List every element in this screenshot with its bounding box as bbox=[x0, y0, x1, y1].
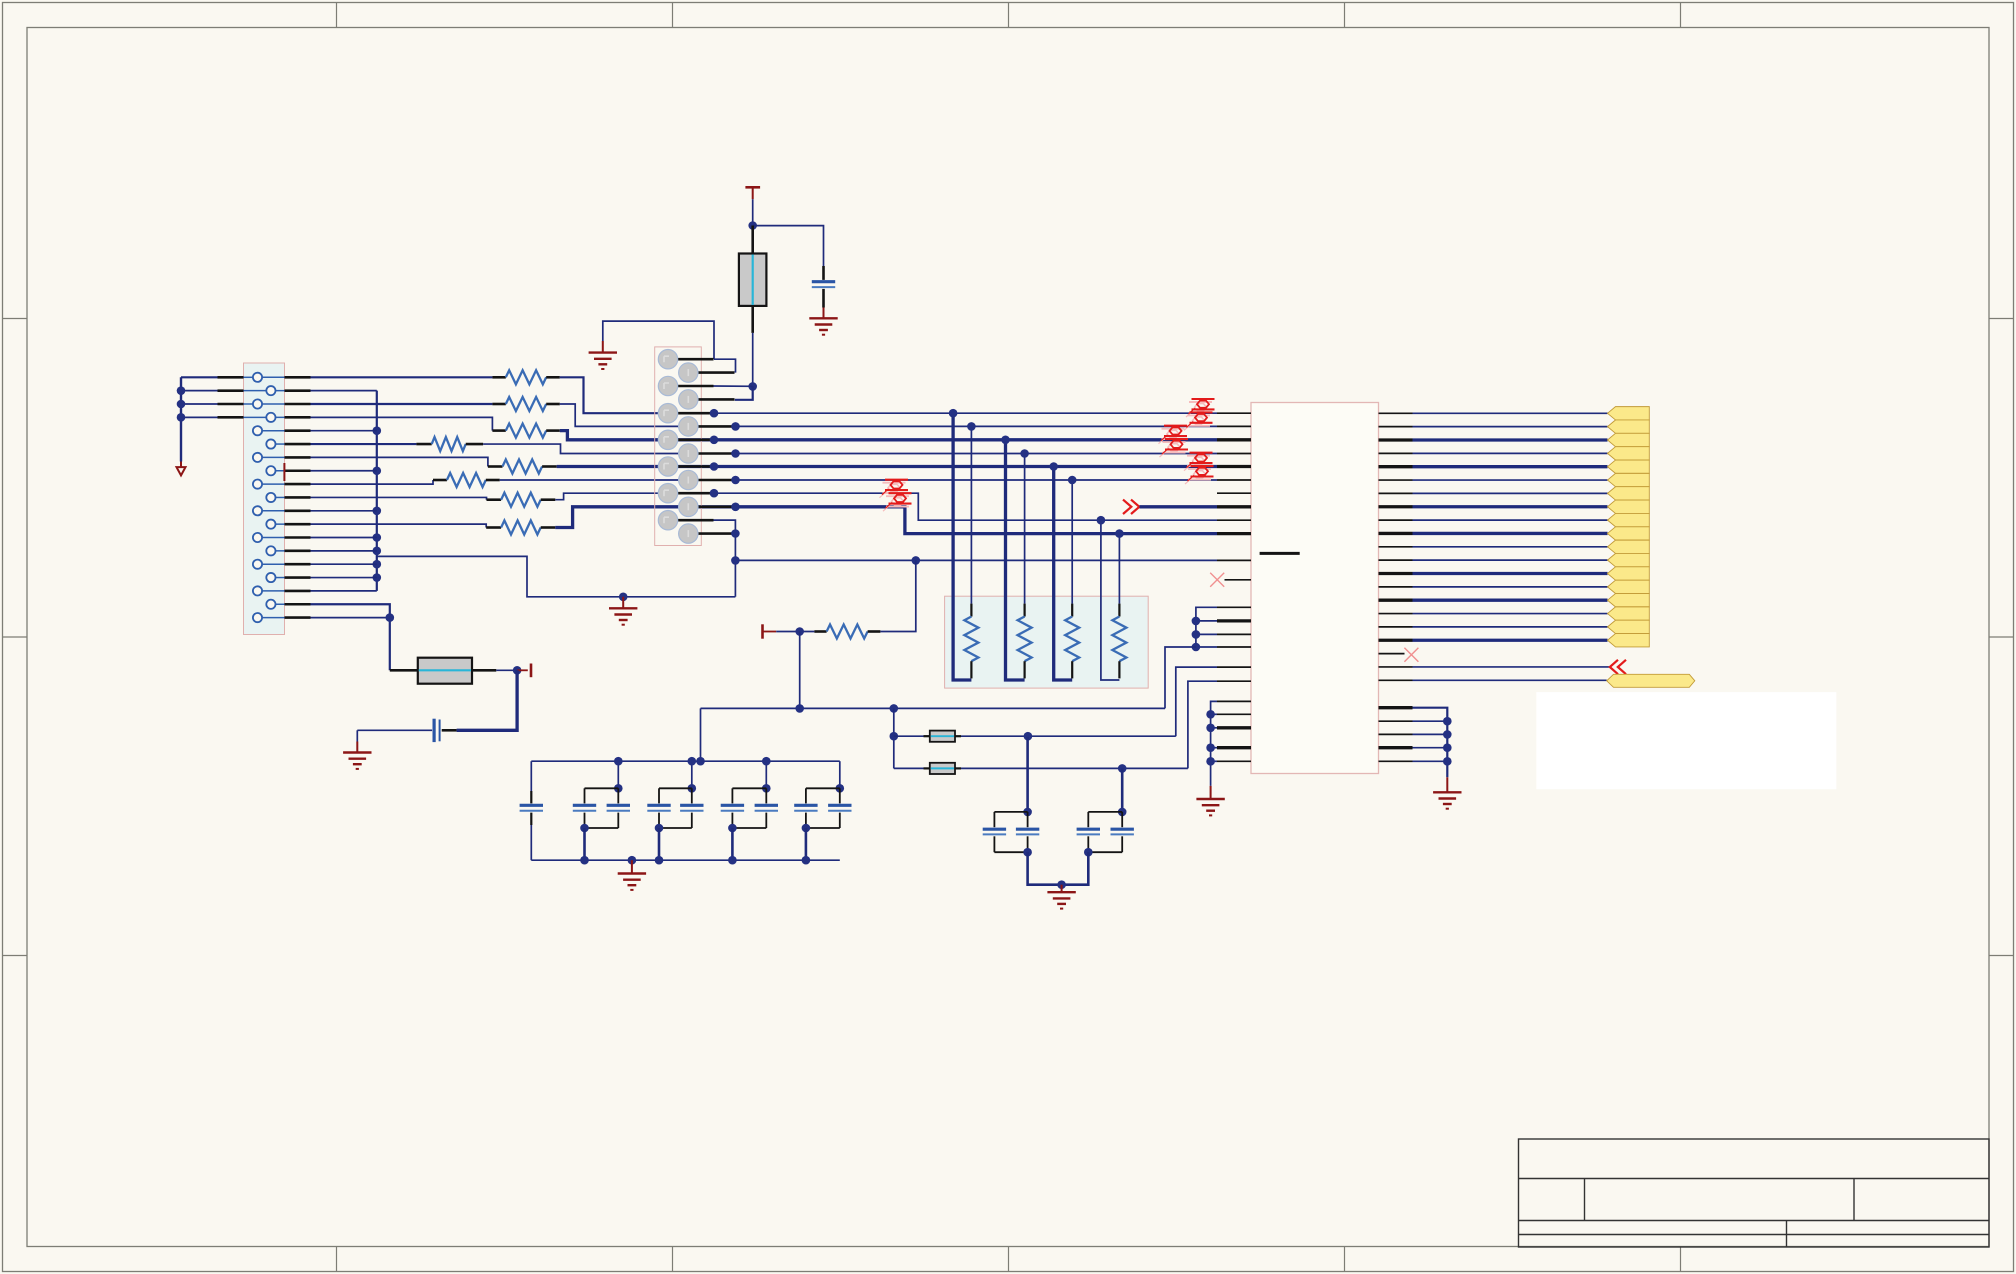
wire 708 to cap rail bbox=[700, 708, 702, 761]
wire drop to RN2 top bbox=[1024, 454, 1026, 604]
ground GND_CB bbox=[628, 856, 637, 865]
fuse F2 bbox=[390, 669, 418, 672]
IC right bottom pins to gnd bbox=[1413, 708, 1448, 778]
net flag 4 bbox=[1608, 447, 1650, 460]
pad circles left column bbox=[658, 350, 677, 369]
wire R7 out jog up to row7 bbox=[555, 493, 714, 500]
wire row8 jog down to row10 thick bbox=[736, 507, 1218, 534]
wire IC pin 667 route bbox=[1217, 666, 1251, 668]
ground GND_P bbox=[602, 341, 604, 353]
resistor R9 bbox=[814, 630, 826, 633]
wire IC right pin 6 bbox=[1379, 479, 1413, 481]
white patch bbox=[1536, 692, 1836, 789]
left GND bus wire bbox=[180, 377, 182, 461]
wire IC pin 621 bbox=[1196, 620, 1217, 622]
junction dot gnd stem bbox=[619, 593, 628, 602]
resistor R3 bbox=[492, 429, 505, 432]
wire pad rows 1-2 gnd link bbox=[603, 321, 714, 359]
IC U1 notation dash bbox=[1260, 552, 1300, 555]
pin8 red net-tie mark bbox=[283, 463, 285, 481]
wire drop to C12 C13 bbox=[1026, 737, 1029, 812]
IC right pin NC with X bbox=[1379, 653, 1405, 655]
wire drop to RN1 top bbox=[970, 426, 972, 603]
ground GND_M bbox=[622, 597, 624, 609]
junction dots left bus bbox=[177, 386, 186, 395]
junction dots RN3 bbox=[1049, 462, 1058, 471]
title block bbox=[1519, 1139, 1990, 1247]
capacitor C1 bbox=[442, 729, 457, 732]
power port P3V3 top bar bbox=[745, 186, 760, 189]
wire port node down bbox=[799, 632, 801, 709]
diff pair directive 8 bbox=[886, 495, 909, 497]
wire pin4 jog to R3 bbox=[311, 417, 493, 430]
IC left pin NC with X bbox=[1225, 579, 1252, 581]
wire IC pin 647 exit bbox=[1196, 646, 1217, 648]
ground GND_C1 bbox=[356, 730, 358, 741]
ground GND_C2 bbox=[823, 308, 825, 319]
fuse F1 vertical bbox=[751, 226, 754, 254]
net label flag wide bbox=[1607, 674, 1695, 687]
junction dots RN2 bbox=[1001, 436, 1010, 445]
wire pin6 to R4 bbox=[311, 443, 417, 445]
wire IC pin 634 bbox=[1196, 633, 1217, 635]
net flag 8 bbox=[1608, 500, 1650, 513]
resistor RN4 bbox=[1118, 604, 1120, 617]
wire bus exit to gnd run bbox=[377, 556, 736, 596]
diff pair directive 6 bbox=[1188, 468, 1211, 470]
wire 893 down bbox=[893, 708, 895, 768]
wire IC right pin 13 bbox=[1379, 572, 1413, 575]
resistor RN1 bbox=[970, 604, 972, 617]
wire branch to C2 bbox=[753, 226, 824, 266]
junction dot pad R7 bbox=[731, 529, 740, 538]
net flag 17 bbox=[1608, 620, 1650, 633]
wire R6 out row6 bbox=[500, 479, 736, 481]
wire row5 long thick bbox=[714, 465, 1217, 468]
capacitor pair C4 C5 bbox=[617, 761, 619, 788]
wire row 708 bbox=[701, 707, 1166, 709]
wire drop to RN4 bottom bbox=[1101, 520, 1120, 680]
wire pin9 jog to R6 bbox=[311, 480, 434, 484]
wire IC right pin 18 bbox=[1379, 639, 1413, 642]
wire IC right pin to net label flag bbox=[1379, 679, 1413, 681]
net flag 7 bbox=[1608, 487, 1650, 500]
pad stubs right column bbox=[698, 371, 735, 374]
wire drop to RN4 top bbox=[1118, 534, 1120, 604]
power port arrow GND_A bbox=[180, 462, 182, 468]
resistor bank box bbox=[945, 596, 1149, 688]
wire gnd row to IC bbox=[735, 559, 1217, 561]
capacitor C3 bbox=[530, 761, 532, 791]
net flag 10 bbox=[1608, 527, 1650, 540]
resistor R7 bbox=[487, 498, 502, 501]
wire IC right pin harness in bbox=[1379, 666, 1413, 668]
wire R8 out jog up to row8 thick bbox=[555, 507, 735, 528]
IC left bottom group bus 1210 bbox=[1211, 701, 1217, 786]
diff pair directive 5 bbox=[1187, 455, 1210, 457]
net flag 18 bbox=[1608, 634, 1650, 647]
capacitor C2 bbox=[822, 266, 825, 280]
IC left pin stubs rows 1-10 bbox=[1217, 412, 1251, 414]
junction dot F2 out bbox=[513, 666, 522, 675]
diff pair directive 2 bbox=[1187, 414, 1210, 416]
junction dots RN4 bbox=[1097, 516, 1106, 525]
harness entry chevrons right-facing bbox=[1123, 500, 1131, 514]
connector J1 pins bbox=[262, 376, 284, 378]
wire drop to C14 C15 bbox=[1121, 768, 1124, 812]
capacitor pair C14 C15 bbox=[1118, 808, 1127, 817]
wire IC right pin 10 bbox=[1379, 532, 1413, 535]
junction dots RN1 bbox=[949, 409, 958, 418]
wire IC right pin 8 bbox=[1379, 505, 1413, 508]
diff pair directive 1 bbox=[1189, 401, 1212, 403]
wire drop to RN3 bottom bbox=[1054, 467, 1073, 681]
wire IC pin 607 bus bbox=[1196, 607, 1217, 647]
wire pad L7 step to gnd vertical bbox=[714, 520, 736, 597]
power port P3V3_A bar bbox=[517, 669, 528, 671]
resistor RN3 bbox=[1071, 604, 1073, 617]
wire IC right pin 9 bbox=[1379, 519, 1413, 521]
wire R4 out jog to row4 bbox=[483, 444, 735, 453]
junction dot F1 to pad3 bbox=[748, 382, 757, 391]
wire pin18 down bbox=[311, 604, 390, 670]
net flag 5 bbox=[1608, 460, 1650, 473]
wire IC pin 681 route bbox=[1217, 680, 1251, 682]
harness entry chevrons bbox=[1610, 660, 1618, 674]
resistor R8 bbox=[486, 526, 501, 529]
wire IC right pin 1 bbox=[1379, 412, 1413, 414]
wire pin3 to R2 bbox=[311, 403, 493, 405]
junction dot R9 drop bbox=[912, 556, 921, 565]
capacitor pair C10 C11 bbox=[839, 761, 841, 788]
junction dot cap rail feed bbox=[696, 757, 705, 766]
pad stubs left column bbox=[678, 358, 714, 361]
wire port to R9 bbox=[776, 631, 814, 633]
diff pair directive 4 bbox=[1163, 441, 1186, 443]
wire row2 long bbox=[736, 425, 1218, 427]
junction dots on bus bbox=[373, 426, 382, 435]
wire harness to IC pin row8 bbox=[1140, 505, 1218, 508]
IC U1 body bbox=[1251, 403, 1379, 774]
wire IC right pin 7 bbox=[1379, 492, 1413, 494]
cap bank bottom rail bbox=[531, 859, 840, 861]
ground GND_CC bbox=[1057, 880, 1066, 889]
resistor R4 bbox=[416, 443, 431, 446]
capacitor pair C6 C7 bbox=[691, 761, 693, 788]
wire R9 up to gnd row bbox=[880, 560, 915, 631]
junction dots 1195 bus bbox=[1192, 617, 1201, 626]
IC left pin stub gnd row bbox=[1217, 559, 1251, 561]
net flag 1 bbox=[1608, 407, 1650, 420]
wire IC right pin 5 bbox=[1379, 465, 1413, 468]
junction dots pad columns bbox=[710, 409, 719, 418]
net flag 14 bbox=[1608, 580, 1650, 593]
wire power to fuse F1 bbox=[752, 199, 754, 225]
wire R2 out jog to row2 bbox=[560, 404, 736, 426]
ground GND_IC_R bbox=[1446, 777, 1448, 792]
wire pin2 to bus bbox=[311, 390, 377, 392]
wire IC right pin 16 bbox=[1379, 613, 1413, 615]
resistor R1 bbox=[492, 376, 505, 379]
net flag 15 bbox=[1608, 594, 1650, 607]
net flag 6 bbox=[1608, 473, 1650, 486]
wire pin1 to R1 bbox=[311, 376, 493, 378]
pad group box bbox=[655, 347, 702, 546]
resistor R5 bbox=[488, 465, 503, 468]
net flag 13 bbox=[1608, 567, 1650, 580]
wire F2 node down to C1 bbox=[457, 670, 517, 730]
wire vertical bus GND bbox=[376, 391, 378, 591]
pad circles right column bbox=[679, 363, 698, 382]
wire drop to RN1 bottom bbox=[953, 413, 971, 680]
wire pin7 jog to R5 bbox=[311, 457, 488, 466]
wire row6 long bbox=[736, 479, 1218, 481]
net flag 16 bbox=[1608, 607, 1650, 620]
wire drop to RN2 bottom bbox=[1006, 440, 1025, 680]
connector left pin stubs pins 1-4 bbox=[244, 376, 253, 378]
border zone ticks top bbox=[336, 3, 338, 28]
wire row4 long bbox=[736, 453, 1218, 455]
ground GND_IC_L bbox=[1210, 786, 1212, 799]
wire IC right pin 3 bbox=[1379, 438, 1413, 441]
wire pad row3 to F1 bbox=[712, 385, 753, 387]
connector J1 body bbox=[244, 363, 285, 635]
wire IC right pin 15 bbox=[1379, 599, 1413, 602]
fuse F4 bbox=[894, 767, 930, 769]
cap bank top rail bbox=[531, 760, 840, 762]
net flag 2 bbox=[1608, 420, 1650, 433]
net flag 9 bbox=[1608, 513, 1650, 526]
wire IC right pin 12 bbox=[1379, 559, 1413, 561]
border zone ticks right bbox=[1989, 318, 2014, 320]
wire pin19 to junction bbox=[311, 617, 390, 619]
wire R5 out row5 thick bbox=[557, 465, 714, 468]
net flag 11 bbox=[1608, 540, 1650, 553]
capacitor pair C12 C13 bbox=[1023, 808, 1032, 817]
wire IC right pin 2 bbox=[1379, 426, 1413, 428]
border zone ticks bottom bbox=[336, 1247, 338, 1272]
wire pad row4 step bbox=[735, 386, 753, 399]
net flag 12 bbox=[1608, 553, 1650, 566]
wire IC right pin 11 bbox=[1379, 546, 1413, 548]
wire drop to RN3 top bbox=[1071, 480, 1073, 604]
wire R3 out jog to row3 thick bbox=[560, 431, 714, 440]
resistor R6 bbox=[433, 479, 447, 482]
resistor RN2 bbox=[1023, 604, 1025, 617]
wire IC right pin 17 bbox=[1379, 626, 1413, 628]
wire pin12 jog to R8 bbox=[311, 524, 487, 527]
junction dot pin18/19 bbox=[386, 613, 395, 622]
wires pins to bus with dots bbox=[311, 430, 377, 432]
wire IC right pin 4 bbox=[1379, 452, 1413, 454]
wire R1 out jog to row1 bbox=[560, 377, 714, 413]
wire 647 route down bbox=[1165, 647, 1196, 708]
wire row3 long thick bbox=[714, 438, 1217, 441]
net flag 3 bbox=[1608, 433, 1650, 446]
diff pair directive 3 bbox=[1162, 428, 1185, 430]
wire row1 long bbox=[714, 412, 1217, 414]
wire pin10 jog to R7 bbox=[311, 497, 487, 499]
wire IC right pin 14 bbox=[1379, 586, 1413, 588]
wire pin17 to bus bbox=[311, 590, 377, 592]
resistor R2 bbox=[492, 403, 505, 406]
border zone ticks left bbox=[3, 318, 28, 320]
power port P1V0 bar bbox=[761, 624, 764, 638]
diff pair directive 7 bbox=[883, 482, 906, 484]
fuse F3 bbox=[894, 735, 930, 737]
capacitor pair C8 C9 bbox=[765, 761, 767, 788]
wire row7 jog down to row9 bbox=[714, 493, 1217, 520]
